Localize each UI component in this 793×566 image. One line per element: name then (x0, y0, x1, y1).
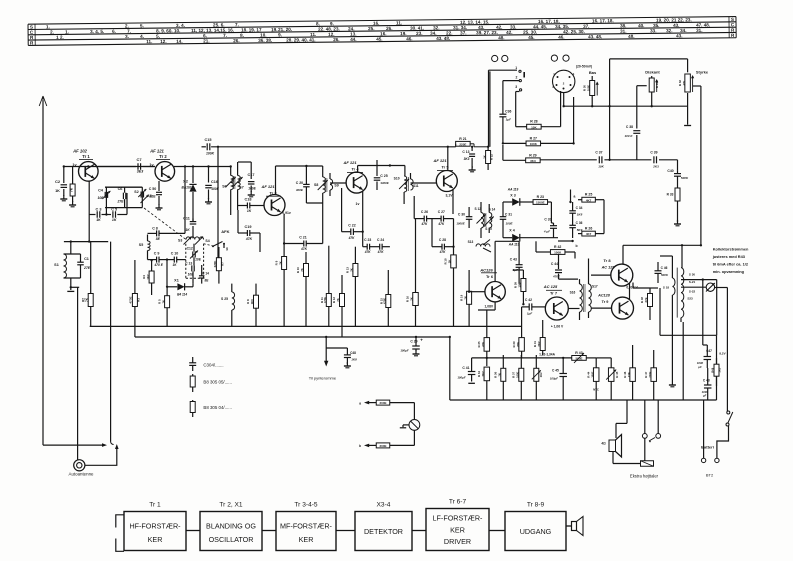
capacitor C46 (633, 262, 669, 288)
small transistor at detector (483, 240, 491, 253)
svg-text:B4 114: B4 114 (177, 292, 187, 296)
svg-text:S 25: S 25 (221, 297, 228, 301)
svg-text:34.: 34. (430, 31, 436, 36)
svg-text:R 26: R 26 (585, 227, 592, 231)
switch contacts 1 2 3 (503, 66, 524, 127)
block link 2-3 (262, 530, 276, 532)
svg-text:S8: S8 (314, 183, 318, 187)
component location ruler table (28, 17, 736, 46)
svg-text:B8 305 05/......: B8 305 05/...... (203, 380, 232, 385)
legend text C304 (203, 363, 223, 368)
svg-text:C16: C16 (211, 180, 218, 184)
legend resistor symbol 1 (190, 374, 195, 392)
svg-text:a: a (359, 402, 361, 406)
svg-text:R 31: R 31 (655, 82, 659, 88)
svg-text:1,08V: 1,08V (484, 305, 493, 309)
svg-text:S11: S11 (413, 184, 419, 188)
transistor Tr3 AF121 (260, 184, 290, 216)
svg-text:S: S (30, 25, 33, 30)
coil S13 (468, 240, 490, 247)
svg-text:22.: 22. (446, 31, 452, 36)
capacitor C28 (432, 219, 454, 255)
wire C36 to R27 (502, 126, 504, 145)
svg-text:11.: 11. (396, 21, 402, 26)
svg-text:20E: 20E (516, 342, 520, 347)
svg-text:5.: 5. (140, 23, 144, 28)
svg-text:S1: S1 (54, 263, 59, 267)
svg-text:1K8: 1K8 (351, 358, 357, 362)
svg-text:C 37: C 37 (595, 151, 602, 155)
svg-text:7K: 7K (410, 297, 414, 301)
trimmer capacitor C4 (97, 187, 142, 216)
svg-text:C 14: C 14 (202, 271, 209, 275)
svg-text:R 39: R 39 (512, 341, 516, 347)
resistor R19 (459, 270, 471, 326)
svg-text:C 46: C 46 (661, 266, 668, 270)
svg-text:43.: 43. (478, 25, 484, 30)
svg-text:15, 16.: 15, 16. (220, 28, 234, 33)
svg-text:42. 25. 30.: 42. 25. 30. (563, 29, 585, 34)
svg-text:10E: 10E (518, 282, 522, 287)
svg-text:R 45: R 45 (615, 371, 619, 377)
svg-text:19.: 19. (271, 27, 277, 32)
svg-text:16.: 16. (380, 31, 386, 36)
svg-text:1μF: 1μF (527, 312, 532, 316)
legend text B8 305 05 (203, 380, 232, 385)
svg-text:100K: 100K (554, 251, 562, 255)
svg-text:Tr 2, X1: Tr 2, X1 (219, 502, 243, 509)
resistor R12 (332, 275, 344, 337)
wire Tr2 collector down (174, 165, 231, 233)
svg-text:C 30: C 30 (458, 213, 465, 217)
resistor R11 (320, 246, 332, 326)
svg-text:35.: 35. (653, 23, 659, 28)
capacitor C50 (148, 181, 162, 210)
wire R23 down (548, 202, 552, 223)
svg-text:R 11: R 11 (320, 297, 324, 303)
resistor R39 (513, 270, 526, 305)
svg-text:44.: 44. (350, 37, 356, 42)
svg-text:R 44: R 44 (586, 371, 590, 377)
wire base bus Tr1-Tr2 (43, 165, 155, 167)
svg-text:47K: 47K (245, 237, 253, 241)
capacitor C20 (296, 166, 323, 244)
resistor R40 trimmer (532, 355, 543, 400)
svg-text:12.: 12. (160, 39, 166, 44)
svg-text:27E: 27E (116, 200, 124, 204)
block MF-FORSTAERKER (276, 502, 336, 551)
terminal pair 2 (551, 55, 569, 61)
svg-text:3. 4. 5.: 3. 4. 5. (90, 29, 104, 34)
block BLANDING OG OSCILLATOR (200, 502, 262, 551)
svg-text:Styrke: Styrke (696, 69, 709, 74)
svg-text:C 48: C 48 (703, 379, 710, 383)
svg-text:μF: μF (702, 394, 707, 398)
svg-text:21.: 21. (203, 38, 209, 43)
svg-text:4.: 4. (140, 34, 144, 39)
resistor R37 (512, 355, 524, 400)
svg-text:1K3: 1K3 (718, 367, 722, 372)
wire x110 feed (110, 242, 112, 442)
resistor R7 (213, 247, 224, 284)
svg-text:13.: 13. (350, 32, 356, 37)
speaker jack (642, 434, 660, 461)
svg-text:1K: 1K (96, 218, 101, 222)
svg-text:100μF: 100μF (400, 349, 409, 353)
capacitor C34 (569, 202, 582, 220)
svg-text:C 22: C 22 (348, 224, 355, 228)
svg-text:R 37: R 37 (512, 371, 516, 377)
svg-text:AFK: AFK (221, 229, 229, 234)
resistor R26 (578, 227, 604, 237)
svg-text:18. 19. 17: 18. 19. 17 (241, 27, 262, 32)
svg-text:28. 29. 40. 41.: 28. 29. 40. 41. (286, 37, 315, 42)
svg-text:37.: 37. (583, 24, 589, 29)
svg-text:HF-FORSTÆR-: HF-FORSTÆR- (129, 522, 181, 531)
svg-text:S16: S16 (570, 291, 576, 295)
svg-text:10.: 10. (260, 33, 266, 38)
svg-text:C36: C36 (505, 110, 511, 114)
svg-text:C 9: C 9 (154, 252, 160, 256)
svg-text:R 10: R 10 (296, 267, 300, 273)
node b (571, 238, 577, 248)
resistor R42 (519, 241, 575, 258)
svg-text:C 24: C 24 (377, 238, 384, 242)
oscillator coil S3 S4 (178, 186, 210, 245)
block HF-FORSTAERKER (124, 502, 186, 551)
svg-text:3: 3 (515, 85, 517, 89)
svg-text:7K: 7K (463, 296, 467, 300)
svg-text:R 30: R 30 (582, 85, 586, 91)
resistor R25 (578, 193, 604, 203)
wire speaker drops (616, 400, 658, 438)
dial lamp circuit (359, 400, 420, 448)
svg-text:AF 102: AF 102 (72, 149, 87, 154)
svg-text:16. 17. 18.: 16. 17. 18. (592, 18, 614, 23)
resistor R45 trimmer (596, 358, 619, 400)
svg-text:45.: 45. (528, 35, 534, 40)
svg-text:C 20: C 20 (296, 181, 303, 185)
svg-text:44. 45.: 44. 45. (533, 24, 547, 29)
fuse (641, 461, 677, 467)
svg-text:16.: 16. (373, 21, 379, 26)
svg-text:X3-4: X3-4 (377, 502, 391, 509)
resistor R1 (69, 167, 76, 207)
svg-text:C48: C48 (350, 351, 356, 355)
svg-text:C 13: C 13 (185, 261, 192, 265)
resistor R15 (379, 270, 391, 326)
svg-text:4 μF: 4 μF (543, 230, 550, 234)
capacitor C43 (510, 241, 523, 283)
svg-text:X 4: X 4 (509, 229, 514, 233)
svg-text:1500E: 1500E (536, 201, 545, 205)
svg-text:S-22: S-22 (689, 290, 696, 294)
capacitor C29 (400, 336, 423, 356)
svg-text:C 31: C 31 (505, 213, 512, 217)
svg-text:R 5: R 5 (157, 299, 161, 304)
svg-text:Tr 3-4-5: Tr 3-4-5 (294, 502, 318, 509)
varactor diode X2 BA102 (182, 167, 197, 223)
svg-text:Tr 8-9: Tr 8-9 (527, 502, 545, 509)
wire Tr8 collector (623, 244, 702, 264)
svg-text:DETEKTOR: DETEKTOR (364, 527, 403, 536)
svg-text:KER: KER (148, 535, 163, 544)
switch battery (726, 411, 733, 426)
svg-text:S23: S23 (687, 297, 693, 301)
svg-text:10E: 10E (195, 257, 202, 261)
svg-text:4K7: 4K7 (586, 232, 592, 236)
block link 3-4 (336, 530, 355, 532)
svg-text:200E: 200E (379, 401, 386, 405)
svg-text:26.: 26. (333, 37, 339, 42)
svg-text:R 47: R 47 (644, 371, 648, 377)
svg-text:26.: 26. (386, 26, 392, 31)
svg-text:C 23: C 23 (364, 238, 371, 242)
svg-text:C17: C17 (248, 173, 255, 177)
svg-text:C 50: C 50 (149, 187, 157, 191)
svg-text:Tr 7: Tr 7 (550, 291, 558, 296)
svg-text:48.: 48. (628, 34, 634, 39)
legend text B8 305 04 (203, 405, 232, 410)
svg-text:2K3: 2K3 (652, 165, 659, 169)
resistor R28 (516, 91, 561, 129)
svg-text:R 36: R 36 (494, 371, 498, 377)
svg-text:a: a (574, 195, 576, 199)
text kollektorstrommen (712, 247, 749, 275)
svg-text:Kollektorstrømmen: Kollektorstrømmen (713, 247, 749, 252)
svg-text:Tr 1: Tr 1 (82, 154, 90, 159)
resistor R23 (533, 195, 548, 205)
svg-text:23.: 23. (416, 31, 422, 36)
capacitor C18 (238, 198, 263, 214)
svg-text:3,1V: 3,1V (446, 194, 454, 198)
svg-text:C19: C19 (245, 225, 252, 229)
svg-text:10E: 10E (97, 196, 104, 200)
svg-text:+ 1,06 V: + 1,06 V (551, 325, 564, 329)
resistor R4 (142, 259, 154, 295)
svg-text:19.: 19. (400, 31, 406, 36)
svg-text:X1: X1 (174, 278, 179, 282)
svg-text:200E: 200E (379, 444, 386, 448)
wire AFC feed (217, 147, 219, 258)
svg-text:C 33: C 33 (544, 218, 551, 222)
svg-text:8,2V: 8,2V (719, 352, 725, 356)
legend resistor symbol 2 (190, 400, 195, 417)
svg-text:R 29: R 29 (529, 153, 536, 157)
svg-text:12.: 12. (328, 32, 334, 37)
svg-text:1K: 1K (482, 155, 486, 159)
resistor R9 (274, 244, 286, 327)
bus audio y400 (450, 399, 717, 401)
svg-text:C 27: C 27 (438, 210, 445, 214)
svg-text:UDGANG: UDGANG (520, 527, 552, 536)
svg-text:150E: 150E (590, 371, 594, 377)
block DETEKTOR (355, 502, 412, 551)
capacitor C13 bias (462, 146, 475, 172)
resistor R47 (644, 350, 657, 400)
svg-text:2K2: 2K2 (537, 341, 541, 347)
svg-text:6.: 6. (112, 29, 116, 34)
svg-text:C 28: C 28 (439, 238, 446, 242)
wire mid vertical pin (572, 142, 574, 144)
capacitor C33 (543, 218, 557, 238)
svg-text:46.: 46. (558, 35, 564, 40)
svg-text:300E: 300E (296, 188, 304, 192)
svg-text:C304/.......: C304/....... (203, 363, 223, 368)
svg-text:S2: S2 (134, 190, 138, 194)
svg-text:3K3: 3K3 (464, 157, 470, 161)
svg-text:Tr 8: Tr 8 (603, 258, 611, 263)
svg-text:Tr 3: Tr 3 (269, 191, 277, 196)
svg-text:S4: S4 (205, 239, 209, 243)
bus left risers (449, 336, 451, 338)
block antenna stub2 (116, 539, 124, 552)
capacitor C9 (148, 252, 173, 267)
wire Tr1 emitter down (88, 181, 90, 243)
svg-text:47K: 47K (437, 222, 445, 226)
svg-text:R 28: R 28 (530, 120, 537, 124)
resistor R16 (406, 219, 419, 327)
svg-text:til 6mA efter ca. 1/2: til 6mA efter ca. 1/2 (713, 262, 749, 267)
svg-text:47K: 47K (364, 250, 372, 254)
Tr5 collector up (447, 146, 449, 171)
resistor R13 (346, 247, 363, 327)
resistor R22 (482, 146, 493, 170)
block link 1-2 (186, 530, 200, 532)
svg-text:4K7: 4K7 (586, 198, 592, 202)
bus y241 left (64, 167, 108, 243)
wire Tr4 emitter (362, 191, 364, 247)
capacitor C15 and top feed line (202, 138, 456, 156)
diode X3 AA113 (503, 188, 533, 206)
svg-text:4Ω: 4Ω (601, 442, 606, 446)
svg-text:100E: 100E (248, 187, 256, 191)
legend capacitor symbol (189, 357, 196, 371)
svg-text:S 30: S 30 (689, 272, 696, 276)
svg-text:21, 20.: 21, 20. (278, 27, 292, 32)
resistor R5 (157, 286, 169, 327)
IF transformer S6 S7 (222, 162, 244, 215)
svg-text:R 16: R 16 (406, 296, 410, 302)
svg-text:R 23: R 23 (537, 195, 544, 199)
svg-text:1000E: 1000E (456, 222, 464, 226)
resistor R10 (296, 246, 308, 326)
svg-text:470E: 470E (129, 296, 133, 303)
svg-text:100 K: 100 K (624, 134, 633, 138)
svg-text:OSCILLATOR: OSCILLATOR (209, 535, 254, 544)
svg-text:3.: 3. (125, 34, 129, 39)
svg-text:KER: KER (299, 535, 314, 544)
svg-text:min. opvarmning: min. opvarmning (713, 269, 745, 274)
svg-text:R 25: R 25 (585, 193, 592, 197)
wire Tr3 emitter (283, 214, 285, 245)
resistor R36 (494, 355, 506, 400)
svg-text:AF 121: AF 121 (432, 158, 447, 163)
resistor R33 (667, 186, 681, 226)
svg-text:C1: C1 (84, 257, 89, 261)
svg-text:6.: 6. (203, 33, 207, 38)
wire tank drop x78 (77, 287, 79, 460)
svg-text:LF-FORSTÆR-: LF-FORSTÆR- (433, 514, 484, 523)
wire Tr8 emitter to Tr9 collector (630, 283, 659, 300)
output transformer S20-S23 (677, 245, 695, 400)
svg-text:R 33: R 33 (667, 193, 674, 197)
svg-text:7K: 7K (350, 268, 354, 272)
svg-text:1K: 1K (112, 218, 117, 222)
svg-text:220K: 220K (213, 261, 217, 268)
resistor R41 (533, 320, 545, 355)
wire tone join (0, 0, 1, 1)
capacitor C37 (595, 151, 604, 169)
svg-text:C 45: C 45 (552, 368, 559, 372)
svg-text:R 32: R 32 (678, 80, 682, 86)
svg-text:2K2: 2K2 (481, 371, 485, 377)
svg-text:C 42: C 42 (525, 298, 532, 302)
svg-text:37.: 37. (460, 30, 466, 35)
wire b to Tr6 (455, 246, 469, 270)
svg-text:3. 4.: 3. 4. (176, 23, 185, 28)
svg-text:KER: KER (450, 526, 465, 535)
svg-text:1K: 1K (448, 260, 452, 264)
svg-text:R 46: R 46 (623, 371, 627, 377)
svg-text:100μF: 100μF (457, 376, 466, 380)
svg-text:24.: 24. (348, 26, 354, 31)
coil S12 S14 S15 detector transformer (475, 202, 496, 238)
svg-text:2.: 2. (125, 23, 129, 28)
block antenna stub (116, 515, 124, 528)
svg-text:B8 305 04/......: B8 305 04/...... (203, 405, 232, 410)
svg-text:1.: 1. (65, 29, 69, 34)
svg-text:C 36: C 36 (576, 221, 583, 225)
speaker ekstra hojttaler (601, 435, 640, 464)
svg-text:100E: 100E (586, 85, 590, 91)
svg-text:DRIVER: DRIVER (444, 537, 471, 546)
svg-text:C15: C15 (205, 138, 212, 142)
svg-text:14.: 14. (176, 39, 182, 44)
output bus y106 (563, 93, 688, 108)
svg-text:S-21: S-21 (689, 280, 696, 284)
svg-text:C12: C12 (187, 246, 193, 250)
capacitor C31 (500, 202, 514, 238)
svg-text:AF 121: AF 121 (260, 184, 275, 189)
wire styrke wiper down (693, 86, 701, 245)
capacitor C17 (238, 162, 257, 197)
svg-text:R 15: R 15 (379, 298, 383, 304)
svg-text:43. 48.: 43. 48. (588, 34, 602, 39)
svg-text:40.: 40. (638, 23, 644, 28)
transistor Tr8 AC128 (601, 258, 639, 290)
svg-text:R3: R3 (137, 298, 141, 302)
resistor R34 (477, 367, 490, 400)
svg-text:R 43: R 43 (575, 351, 582, 355)
resistor R2 (82, 242, 94, 326)
svg-text:500K: 500K (661, 273, 669, 277)
capacitor C3 (89, 208, 101, 223)
Tr4 collector bus (358, 164, 405, 172)
autoantenne connector (74, 442, 119, 471)
svg-text:48.: 48. (498, 35, 504, 40)
svg-text:8. 9. 60. 10.: 8. 9. 60. 10. (156, 28, 180, 33)
audio rail (472, 357, 572, 359)
svg-text:Ekstra højttaler: Ekstra højttaler (630, 474, 659, 479)
capacitor C16 (205, 167, 220, 204)
tone top box (608, 59, 687, 161)
svg-text:2: 2 (516, 76, 518, 80)
svg-text:31.: 31. (696, 28, 702, 33)
svg-text:Diskant: Diskant (645, 69, 660, 74)
svg-text:32.: 32. (666, 28, 672, 33)
svg-text:9.: 9. (330, 21, 334, 26)
